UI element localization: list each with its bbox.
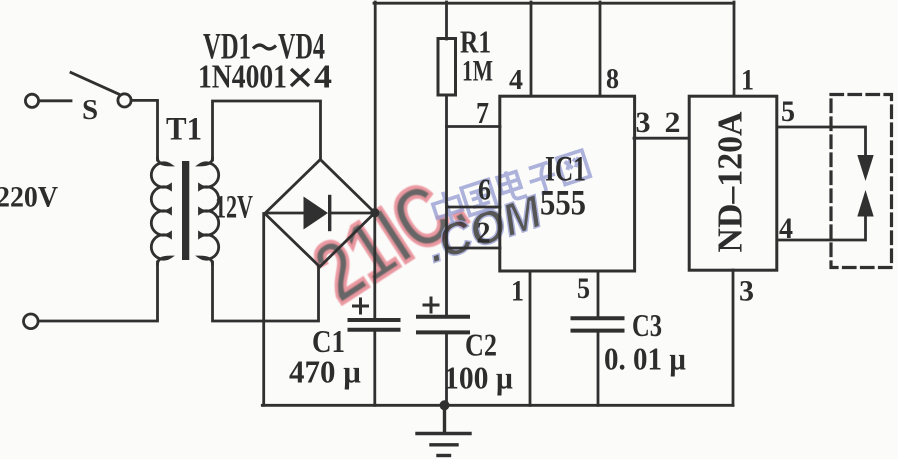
C2 polarity + <box>424 298 438 312</box>
switch S lever <box>71 73 119 95</box>
svg-text:220V: 220V <box>0 181 58 214</box>
wire (R1 bottom lead down to C2) <box>445 95 448 316</box>
transformer T1 secondary winding <box>200 158 219 264</box>
watermark chinese chars blue <box>430 147 591 227</box>
wire IC pin 5 down to C3 <box>597 271 600 317</box>
svg-text:470 µ: 470 µ <box>289 354 361 390</box>
arrow up <box>857 190 873 217</box>
svg-text:3: 3 <box>636 106 651 139</box>
svg-text:T1: T1 <box>166 112 202 148</box>
svg-text:1N4001: 1N4001 <box>198 59 287 96</box>
diode symbol inside bridge <box>268 212 304 215</box>
svg-text:1: 1 <box>741 64 754 97</box>
wire pin 3 to ND pin 2 <box>634 137 689 140</box>
junction dot (ground node) <box>440 400 450 410</box>
wire pin 7 <box>447 125 501 128</box>
svg-text:8: 8 <box>606 63 619 95</box>
svg-text:1: 1 <box>511 275 524 308</box>
wire (C1 top lead) <box>373 213 376 318</box>
wire ND pin 3 down <box>732 270 735 405</box>
wire pin 8 <box>599 2 602 96</box>
wire (ND pin1 drop) <box>733 2 736 96</box>
wire ND pin 4 <box>777 215 866 241</box>
ground <box>417 405 470 455</box>
svg-text:0. 01 µ: 0. 01 µ <box>604 341 686 377</box>
svg-text:4: 4 <box>509 64 523 96</box>
wire pin 4 <box>530 2 533 96</box>
IC1 555 box <box>500 96 635 271</box>
wire (bridge + up to rail) <box>374 2 377 212</box>
wire (C2 bottom lead) <box>445 334 448 405</box>
svg-text:6: 6 <box>478 172 491 207</box>
wire (top positive rail) <box>374 2 734 5</box>
svg-text:7: 7 <box>476 95 489 130</box>
ND-120A box <box>689 96 777 270</box>
C1 polarity + <box>354 299 368 313</box>
wire (secondary top to bridge) <box>213 101 321 160</box>
svg-text:100 µ: 100 µ <box>444 360 513 396</box>
wire (bridge - output down) <box>262 214 265 406</box>
wire (primary bottom to terminal) <box>39 262 158 321</box>
svg-text:1M: 1M <box>462 55 493 88</box>
dashed box (output device) <box>831 95 892 268</box>
terminal (AC input top) <box>25 94 38 107</box>
wire (C3 bottom lead) <box>597 333 600 406</box>
svg-text:12V: 12V <box>215 190 253 226</box>
wire ND pin 5 <box>777 127 866 157</box>
wire (bottom ground rail) <box>262 404 733 407</box>
svg-text:2: 2 <box>477 215 491 250</box>
capacitor C2 plates <box>418 315 468 319</box>
wire pin 2 <box>447 247 501 250</box>
junction dot (bridge + output) <box>370 208 379 217</box>
terminal (AC input bottom) <box>24 314 39 329</box>
wire pin 6 <box>447 206 501 209</box>
svg-text:2: 2 <box>665 106 681 139</box>
wire IC pin 1 down <box>529 271 532 405</box>
wire (secondary bottom to bridge) <box>213 262 319 321</box>
capacitor C1 plates <box>350 318 399 322</box>
svg-text:ND–120A: ND–120A <box>711 111 750 253</box>
capacitor C3 plates <box>573 316 623 320</box>
arrow down <box>857 155 873 181</box>
svg-text:5: 5 <box>781 95 795 128</box>
svg-text:4: 4 <box>314 59 332 96</box>
wire <box>131 100 157 160</box>
wire (R1 top lead) <box>445 2 448 39</box>
transformer T1 primary winding <box>151 158 170 264</box>
svg-text:555: 555 <box>540 183 586 223</box>
transformer T1 core <box>182 161 189 260</box>
svg-text:S: S <box>82 94 98 126</box>
svg-text:C3: C3 <box>632 307 662 343</box>
svg-text:4: 4 <box>779 212 793 245</box>
resistor R1 <box>438 39 456 96</box>
wire <box>39 99 71 102</box>
wire (C1 bottom lead) <box>373 332 376 406</box>
switch S contact <box>118 94 131 107</box>
svg-text:C2: C2 <box>465 327 497 363</box>
svg-text:5: 5 <box>577 272 590 305</box>
bridge rectifier VD1-VD4 diamond <box>265 160 375 267</box>
svg-text:3: 3 <box>739 275 754 308</box>
